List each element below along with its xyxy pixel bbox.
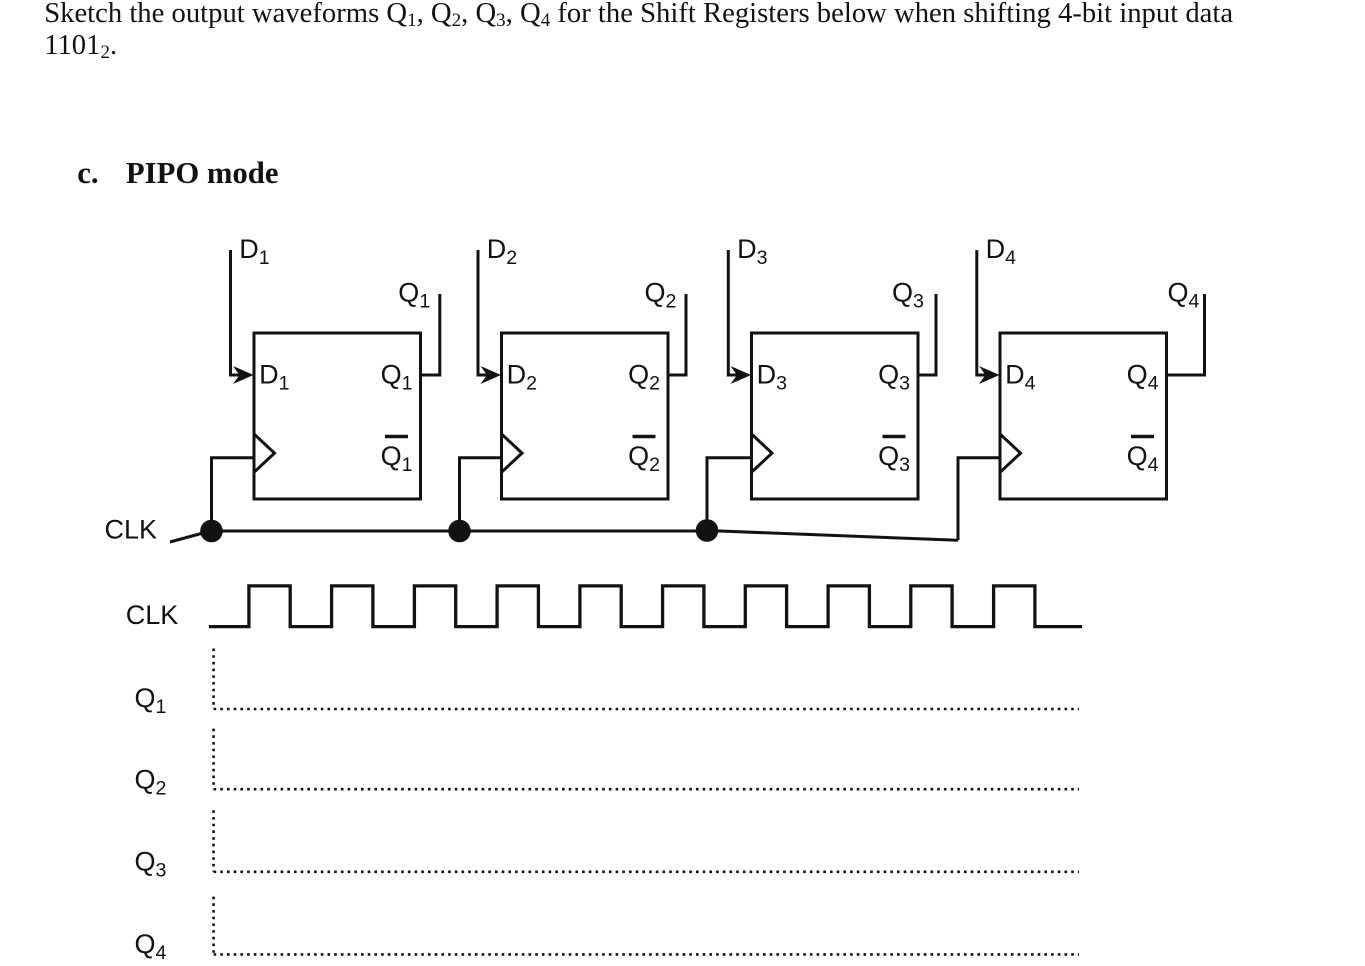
svg-text:D1: D1 (239, 234, 269, 269)
svg-text:D1: D1 (259, 360, 289, 395)
svg-text:Q4: Q4 (1127, 360, 1159, 395)
CLK junction dot at U3 (696, 519, 719, 542)
svg-text:Q1: Q1 (381, 441, 413, 476)
svg-text:Q2: Q2 (135, 765, 167, 800)
svg-text:Q4: Q4 (135, 929, 167, 964)
CLK waveform trace (209, 586, 1082, 627)
Q4 axis dotted vertical line (212, 897, 215, 955)
Q4 output wire (1167, 294, 1205, 375)
CLK bus diagonal wire to U4 (707, 531, 958, 541)
U4 Q-bar overbar (1131, 435, 1154, 438)
svg-text:D4: D4 (1005, 360, 1036, 395)
CLK bus wire (212, 530, 708, 533)
D1 input wire (231, 250, 242, 375)
Q1 output wire (421, 294, 440, 375)
svg-text:Q4: Q4 (1127, 441, 1159, 476)
D2 input arrowhead (481, 366, 502, 384)
CLK junction dot at U2 (448, 520, 471, 543)
heading c. PIPO mode (77, 156, 278, 191)
flip-flop U3 box (752, 333, 919, 499)
CLK wire to U1 clock (212, 458, 255, 531)
U1 Q-bar overbar (385, 435, 408, 438)
U3 Q-bar overbar (883, 435, 906, 438)
svg-text:Q1: Q1 (381, 360, 413, 395)
problem statement text (44, 0, 1233, 62)
svg-text:Q2: Q2 (628, 360, 660, 395)
svg-text:Q3: Q3 (892, 278, 924, 313)
svg-text:Q1: Q1 (135, 683, 167, 718)
flip-flop U2 box (502, 333, 669, 499)
Q1 axis dotted vertical line (212, 649, 215, 710)
D3 input wire (728, 250, 738, 375)
svg-text:Q3: Q3 (135, 847, 167, 882)
Q3 output wire (918, 294, 936, 375)
U1 clock edge triangle (254, 434, 275, 472)
CLK wire to U3 clock (707, 458, 752, 531)
Q1 baseline dotted line (214, 708, 1079, 711)
U2 clock edge triangle (502, 434, 523, 472)
svg-text:D2: D2 (507, 360, 537, 395)
D4 input wire (977, 250, 987, 375)
svg-text:CLK: CLK (126, 600, 179, 630)
D1 input arrowhead (233, 366, 254, 384)
U2 Q-bar overbar (633, 435, 656, 438)
Q3 baseline dotted line (214, 870, 1079, 873)
svg-text:Q2: Q2 (628, 441, 660, 476)
D2 input wire (478, 250, 489, 375)
CLK wire to U2 clock (460, 458, 502, 531)
U4 clock edge triangle (1000, 434, 1021, 472)
D4 input arrowhead (979, 366, 1000, 384)
svg-text:D4: D4 (986, 234, 1017, 269)
svg-text:Q1: Q1 (398, 278, 430, 313)
Q3 axis dotted vertical line (212, 810, 215, 872)
svg-text:D2: D2 (487, 234, 517, 269)
svg-text:Q2: Q2 (645, 278, 677, 313)
Q2 output wire (668, 294, 686, 375)
Q4 baseline dotted line (214, 953, 1079, 956)
D3 input arrowhead (731, 366, 752, 384)
Q2 baseline dotted line (214, 788, 1079, 791)
svg-text:Q4: Q4 (1168, 278, 1200, 313)
svg-text:CLK: CLK (105, 515, 158, 545)
svg-text:D3: D3 (737, 234, 768, 269)
CLK lead wire from label (170, 533, 203, 542)
svg-text:D3: D3 (757, 360, 788, 395)
svg-text:Q3: Q3 (878, 441, 910, 476)
U3 clock edge triangle (752, 434, 773, 472)
CLK wire to U4 clock (958, 458, 1000, 541)
Q2 axis dotted vertical line (212, 729, 215, 790)
flip-flop U4 box (1000, 333, 1167, 499)
flip-flop U1 box (254, 333, 421, 499)
CLK junction dot at U1 (200, 520, 223, 543)
svg-text:Q3: Q3 (878, 360, 910, 395)
